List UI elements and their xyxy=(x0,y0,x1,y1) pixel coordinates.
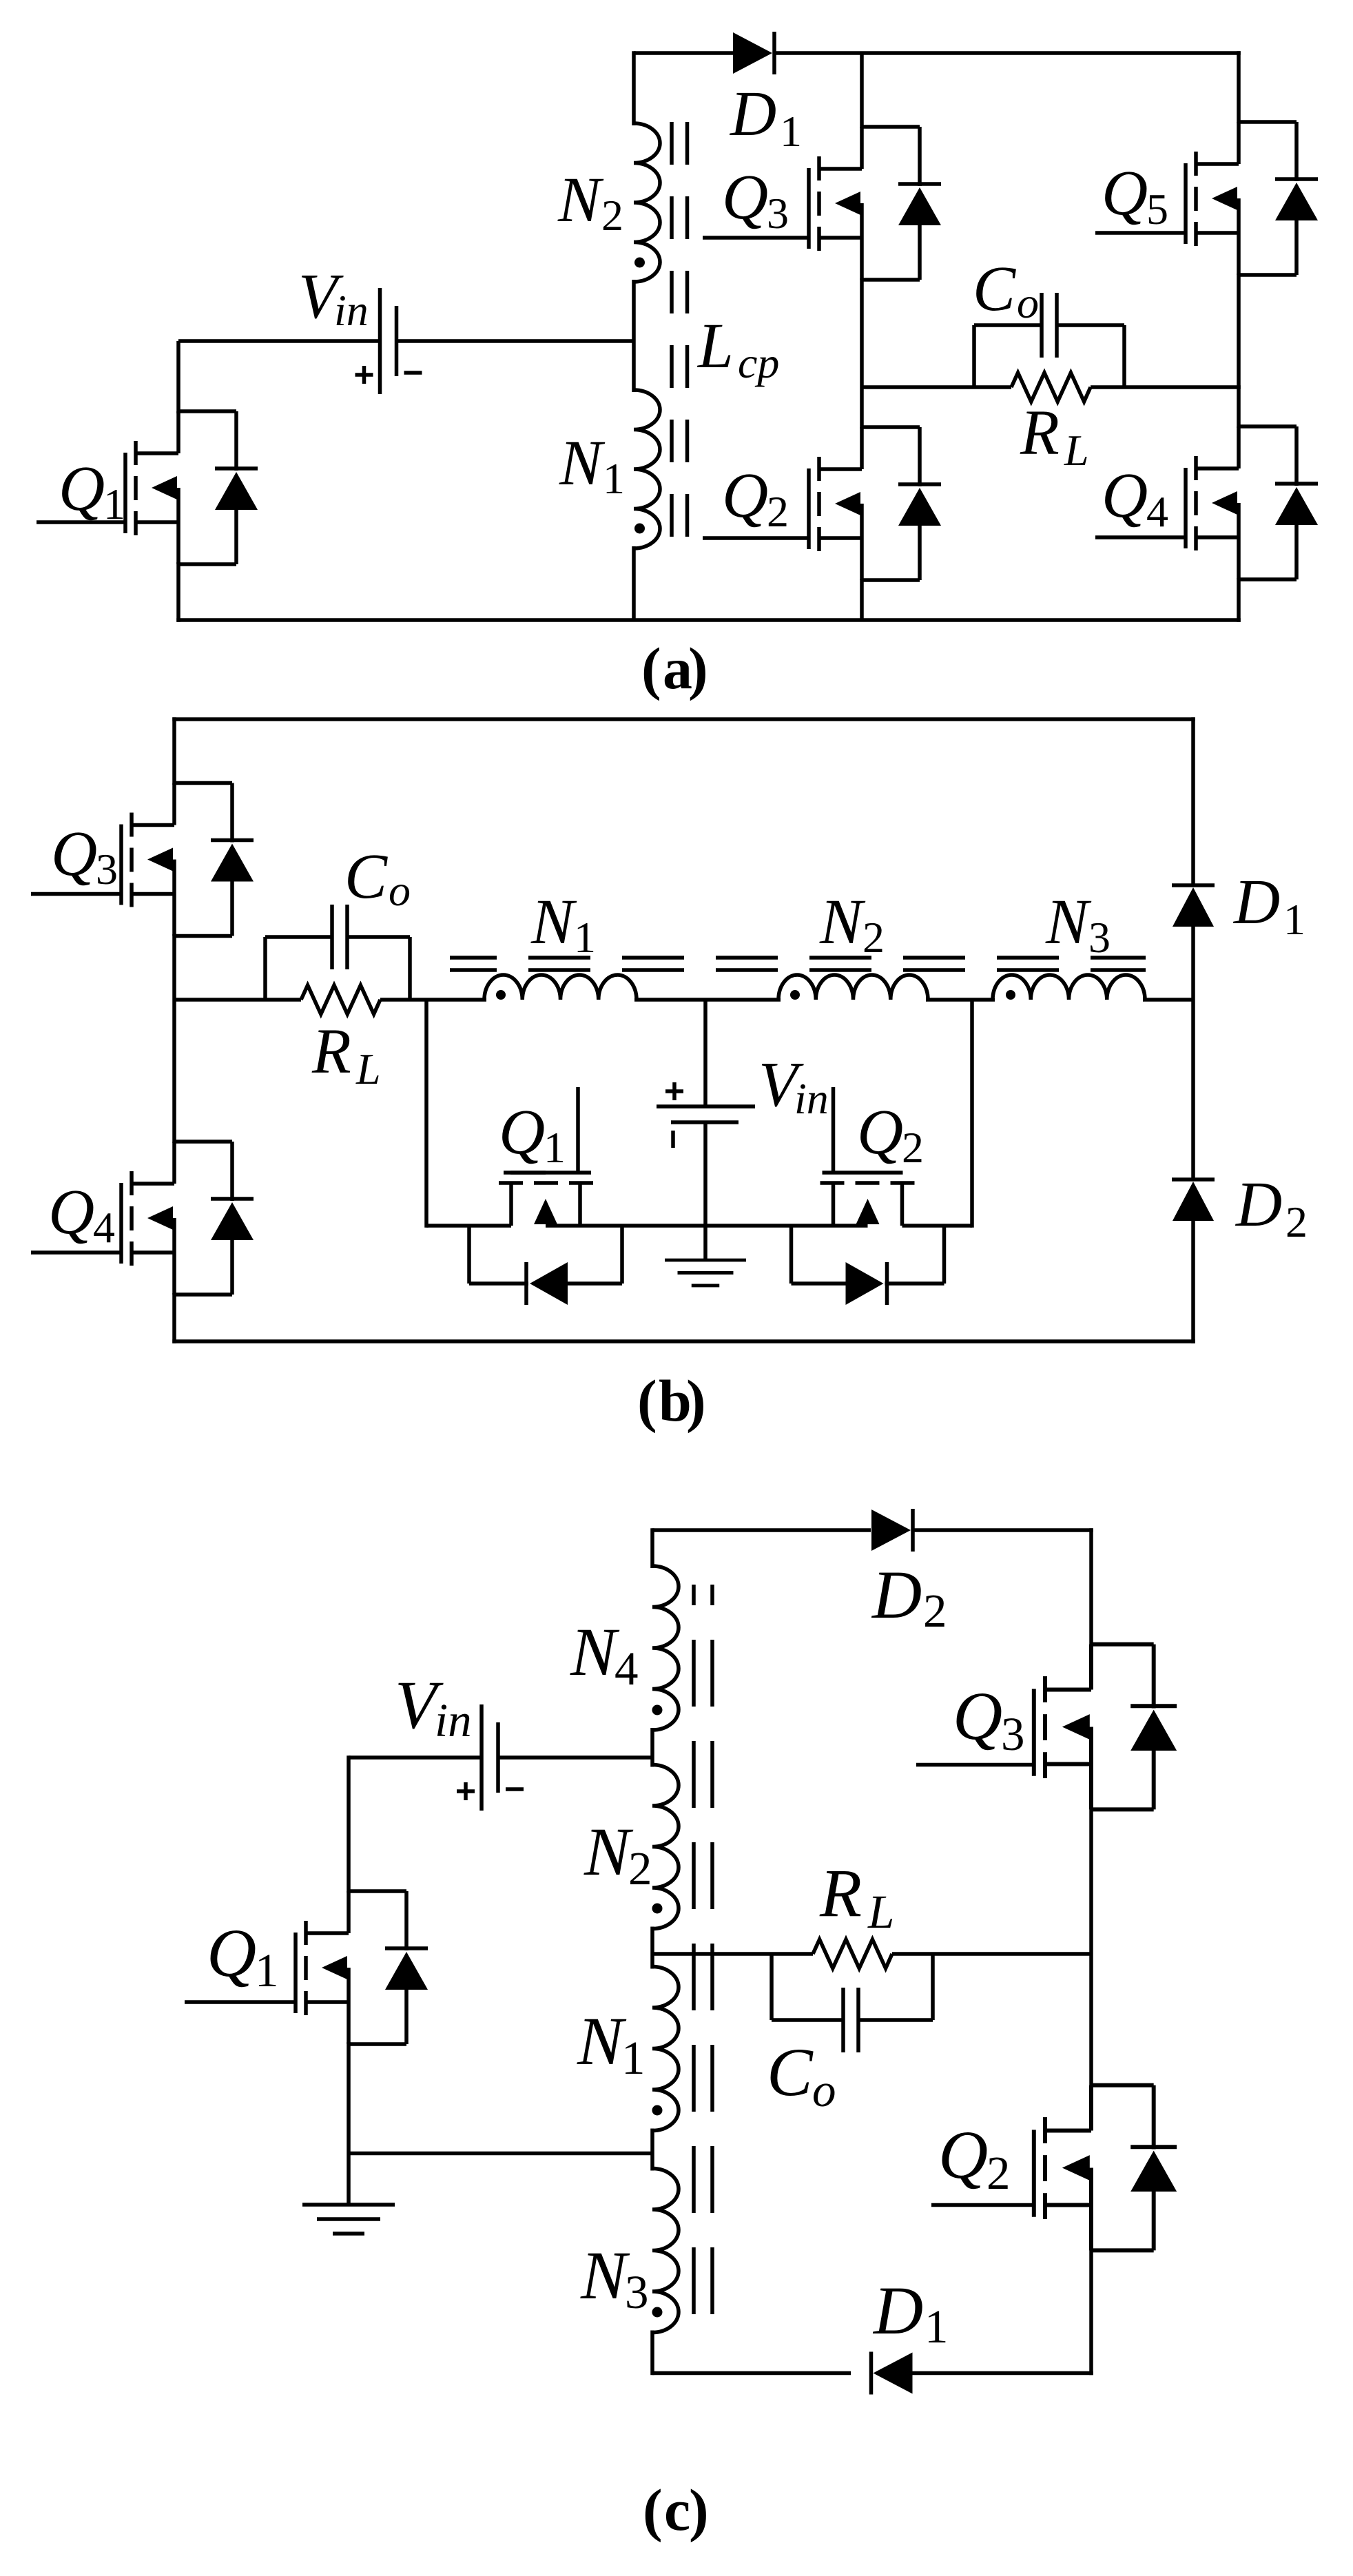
wire (b) N2 to N3 xyxy=(926,998,995,1002)
transistor Q1 (c) xyxy=(296,1891,428,2044)
svg-text:1: 1 xyxy=(780,107,802,156)
svg-text:3: 3 xyxy=(625,2266,649,2318)
svg-text:Q: Q xyxy=(207,1915,256,1991)
wire (c) top rail left of D2 xyxy=(652,1528,871,1532)
svg-text:in: in xyxy=(794,1074,829,1123)
wire (b) Co branch top left xyxy=(265,935,332,939)
svg-text:D: D xyxy=(871,1556,922,1633)
svg-text:Q: Q xyxy=(51,818,97,889)
resistor RL (b) xyxy=(301,985,380,1014)
svg-text:3: 3 xyxy=(1001,1708,1025,1760)
winding N2 (a) xyxy=(634,123,660,282)
wire (b) output to N1 xyxy=(380,998,486,1002)
svg-text:Q: Q xyxy=(48,1177,94,1248)
battery Vin (c) xyxy=(457,1704,524,1811)
svg-text:N: N xyxy=(557,165,604,236)
svg-text:Q: Q xyxy=(1102,158,1148,229)
transistor Q3 (c) xyxy=(1034,1645,1177,1810)
wire (b) Co branch right vertical xyxy=(408,937,412,1000)
wire (c) Co branch bottom left xyxy=(772,2018,843,2022)
svg-text:(: ( xyxy=(643,2477,663,2543)
gate lead Q1 (b) xyxy=(576,1087,580,1173)
diode D1 (c) xyxy=(871,2352,913,2395)
wire (a) right bus top xyxy=(1237,51,1241,123)
svg-text:D: D xyxy=(872,2272,923,2349)
wire (b) rail Q2 right xyxy=(944,1224,973,1228)
wire (b) rail Q1 left xyxy=(426,1224,469,1228)
wire (b) bottom rail xyxy=(172,1339,1195,1343)
resistor RL (c) xyxy=(813,1939,892,1968)
wire (c) Vin row right xyxy=(498,1755,652,1760)
diode D1 (b) xyxy=(1172,885,1215,927)
svg-text:1: 1 xyxy=(544,1123,566,1172)
winding N4 (c) xyxy=(652,1566,679,1730)
transistor Q5 (a) xyxy=(1186,122,1318,275)
wire (c) Q1 bus lower xyxy=(347,2042,351,2205)
svg-text:R: R xyxy=(1020,398,1060,468)
wire (b) right bus top xyxy=(1191,717,1195,885)
capacitor Co (a) xyxy=(1042,293,1057,358)
svg-text:N: N xyxy=(580,2237,630,2314)
wire (c) Q1 source to transformer xyxy=(349,2152,652,2156)
svg-text:Q: Q xyxy=(59,453,105,524)
svg-text:2: 2 xyxy=(1285,1197,1308,1246)
wire (b) output row xyxy=(174,998,301,1002)
wire (c) right bus top xyxy=(1089,1528,1093,1645)
transformer core (a) xyxy=(670,122,674,548)
wire (b) top rail xyxy=(172,717,1195,721)
gate lead Q1 (a) xyxy=(37,520,125,524)
wire (b) drop left to Q1 rail xyxy=(424,1000,428,1228)
gate lead Q3 (c) xyxy=(916,1763,1034,1767)
svg-text:2: 2 xyxy=(863,913,885,962)
winding N2 (c) xyxy=(652,1765,679,1929)
transistor Q1 (b) xyxy=(469,1173,622,1305)
wire (b) left bus middle xyxy=(172,934,176,1143)
wire (b) battery to ground xyxy=(703,1122,708,1260)
svg-text:o: o xyxy=(812,2064,836,2116)
svg-text:Q: Q xyxy=(722,162,768,233)
gate lead Q3 (b) xyxy=(31,892,121,896)
transistor Q4 (a) xyxy=(1186,426,1318,579)
svg-text:3: 3 xyxy=(767,189,789,238)
transistor Q3 (b) xyxy=(121,783,254,936)
wire (c) Q1 bus upper xyxy=(347,1755,351,1893)
winding N3 (c) xyxy=(652,2169,679,2333)
wire (c) right bus bottom xyxy=(1089,2249,1093,2375)
transistor Q1 (a) xyxy=(125,411,258,564)
wire (a) Vin row right xyxy=(397,339,634,343)
wire (a) bottom rail xyxy=(176,618,1241,622)
ground (c) xyxy=(302,2205,395,2234)
transformer winding lead (c) bottom xyxy=(650,2331,654,2376)
svg-text:2: 2 xyxy=(767,487,789,536)
svg-text:4: 4 xyxy=(614,1642,639,1695)
wire (c) bottom rail right of D1 xyxy=(891,2371,1093,2376)
gate lead Q2 (a) xyxy=(703,536,809,540)
wire (c) Co branch bottom right xyxy=(858,2018,933,2022)
wire (a) mid bus top xyxy=(860,53,864,128)
svg-text:5: 5 xyxy=(1146,185,1168,234)
wire (a) mid bus middle xyxy=(860,278,864,429)
winding N2 (b) xyxy=(778,975,928,1000)
wire (b) Co branch top right xyxy=(347,935,410,939)
svg-text:Q: Q xyxy=(953,1678,1002,1754)
svg-text:N: N xyxy=(1045,887,1092,958)
wire (a) mid bus bottom xyxy=(860,579,864,620)
transistor Q4 (b) xyxy=(121,1142,254,1295)
svg-text:C: C xyxy=(973,254,1016,324)
svg-text:C: C xyxy=(344,841,388,912)
gate lead Q2 (c) xyxy=(931,2203,1034,2207)
svg-text:2: 2 xyxy=(628,1842,652,1895)
svg-text:(: ( xyxy=(637,1368,657,1434)
wire (c) output row right xyxy=(892,1952,1091,1956)
svg-text:1: 1 xyxy=(621,2032,645,2084)
transistor Q2 (a) xyxy=(809,427,941,580)
wire (a) output row right xyxy=(1091,385,1241,389)
wire (a) Co branch top right xyxy=(1057,323,1124,327)
svg-text:Q: Q xyxy=(499,1097,545,1168)
wire (c) top rail right of D2 xyxy=(913,1528,1093,1532)
transformer winding lead (a) bottom xyxy=(632,546,636,620)
transformer core (b) xyxy=(450,956,1146,960)
ground (b) xyxy=(665,1260,746,1286)
svg-text:D: D xyxy=(1235,1169,1282,1240)
svg-text:N: N xyxy=(577,2003,627,2079)
transformer connector N4-N2 (c) xyxy=(650,1728,654,1767)
transformer core (c) xyxy=(692,1585,696,2334)
svg-text:(: ( xyxy=(641,635,661,701)
winding N1 (a) xyxy=(634,390,660,548)
svg-text:2: 2 xyxy=(601,191,623,240)
svg-text:R: R xyxy=(311,1016,351,1087)
wire (b) drop right from N2-N3 tap xyxy=(970,1000,974,1228)
svg-text:N: N xyxy=(530,887,577,958)
transformer center tap wire (a) xyxy=(632,280,636,392)
svg-text:in: in xyxy=(435,1694,472,1746)
svg-text:c: c xyxy=(664,2477,690,2543)
winding N3 (b) xyxy=(993,975,1145,1000)
svg-text:C: C xyxy=(767,2034,814,2110)
wire (b) rail battery to Q2 xyxy=(705,1224,792,1228)
svg-text:Q: Q xyxy=(857,1097,903,1168)
svg-text:): ) xyxy=(688,635,708,701)
winding N1 (b) xyxy=(484,975,637,1000)
transistor Q3 (a) xyxy=(809,127,941,280)
wire (c) Vin row left xyxy=(349,1755,482,1760)
svg-text:2: 2 xyxy=(987,2147,1011,2199)
diode D1 (a) xyxy=(733,32,774,74)
capacitor Co (c) xyxy=(843,1988,858,2052)
svg-text:D: D xyxy=(1232,867,1280,938)
wire (c) output row mid xyxy=(772,1952,813,1956)
battery Vin (b) xyxy=(657,1082,755,1148)
transformer winding lead (c) top xyxy=(650,1528,654,1568)
wire (a) left bus upper xyxy=(176,341,180,413)
svg-text:): ) xyxy=(689,2477,709,2543)
gate lead Q4 (b) xyxy=(31,1250,121,1255)
battery Vin (a) xyxy=(355,288,422,394)
svg-text:N: N xyxy=(559,428,606,499)
wire (c) right bus middle xyxy=(1089,1808,1093,2087)
svg-text:L: L xyxy=(696,311,734,382)
svg-text:4: 4 xyxy=(93,1203,115,1252)
svg-text:4: 4 xyxy=(1146,487,1168,536)
svg-text:o: o xyxy=(1017,278,1039,327)
svg-text:3: 3 xyxy=(96,845,118,894)
gate lead Q2 (b) xyxy=(832,1087,836,1173)
svg-text:N: N xyxy=(819,887,866,958)
wire (a) right bus bottom xyxy=(1237,578,1241,622)
resistor RL (a) xyxy=(1011,373,1091,402)
transistor Q2 (b) xyxy=(792,1173,944,1305)
wire (b) rail Q1 to battery xyxy=(622,1224,705,1228)
wire (a) Vin row left xyxy=(178,339,380,343)
svg-text:D: D xyxy=(729,79,776,150)
svg-text:L: L xyxy=(867,1886,894,1938)
transformer connector N2-N1 (c) xyxy=(650,1927,654,1969)
wire (b) N1 to N2 xyxy=(634,998,781,1002)
wire (a) top rail left of D1 xyxy=(634,51,734,55)
gate lead Q4 (a) xyxy=(1095,535,1186,539)
wire (c) bottom rail left of D1 xyxy=(652,2371,851,2376)
wire (c) Co branch left vertical xyxy=(770,1954,774,2020)
svg-text:1: 1 xyxy=(603,454,625,503)
svg-text:o: o xyxy=(389,866,411,915)
svg-text:1: 1 xyxy=(255,1944,279,1997)
svg-text:): ) xyxy=(686,1368,706,1434)
svg-text:Q: Q xyxy=(938,2116,988,2193)
svg-text:cp: cp xyxy=(738,338,779,387)
wire (b) right bus bottom xyxy=(1191,1219,1195,1343)
diode D2 (b) xyxy=(1172,1179,1215,1221)
svg-text:1: 1 xyxy=(574,913,596,962)
diode D2 (c) xyxy=(871,1509,913,1552)
wire (a) output row left xyxy=(862,385,1011,389)
wire (b) left bus bottom xyxy=(172,1293,176,1343)
svg-text:L: L xyxy=(1064,426,1089,475)
wire (a) Co branch top left xyxy=(974,323,1042,327)
wire (b) left bus top xyxy=(172,717,176,785)
svg-text:N: N xyxy=(583,1813,634,1890)
gate lead Q1 (c) xyxy=(185,2000,296,2004)
svg-text:2: 2 xyxy=(902,1123,924,1172)
wire (a) right bus middle xyxy=(1237,274,1241,428)
winding N1 (c) xyxy=(652,1967,679,2131)
svg-text:R: R xyxy=(819,1855,862,1931)
wire (c) Co branch right vertical xyxy=(931,1954,935,2020)
svg-text:Q: Q xyxy=(1102,460,1148,531)
transistor Q2 (c) xyxy=(1034,2085,1177,2251)
wire (b) battery drop from N1-N2 tap xyxy=(703,1000,708,1106)
wire (b) N3 to right bus xyxy=(1143,998,1193,1002)
wire (a) Co branch right vertical xyxy=(1122,325,1126,387)
svg-text:L: L xyxy=(355,1044,381,1093)
svg-text:3: 3 xyxy=(1088,913,1111,962)
svg-text:2: 2 xyxy=(923,1585,947,1637)
transformer connector N1-N3 (c) xyxy=(650,2129,654,2171)
wire (a) top rail right of D1 xyxy=(774,51,1241,55)
gate lead Q5 (a) xyxy=(1095,231,1186,235)
wire (c) output row left xyxy=(652,1952,772,1956)
svg-text:Q: Q xyxy=(722,460,768,531)
wire (b) Co branch left vertical xyxy=(263,937,267,1000)
gate bar extension Q1 (b) xyxy=(504,1171,546,1175)
svg-text:1: 1 xyxy=(103,480,125,528)
gate lead Q3 (a) xyxy=(703,236,809,240)
svg-text:1: 1 xyxy=(925,2300,949,2353)
svg-text:1: 1 xyxy=(1283,895,1305,944)
wire (a) Co branch left vertical xyxy=(972,325,976,387)
svg-text:N: N xyxy=(570,1614,620,1690)
capacitor Co (b) xyxy=(332,905,347,969)
svg-text:in: in xyxy=(334,286,369,335)
transformer winding lead (a) top xyxy=(632,51,636,125)
wire (a) left bus lower xyxy=(176,562,180,622)
wire (b) right bus middle xyxy=(1191,925,1195,1179)
